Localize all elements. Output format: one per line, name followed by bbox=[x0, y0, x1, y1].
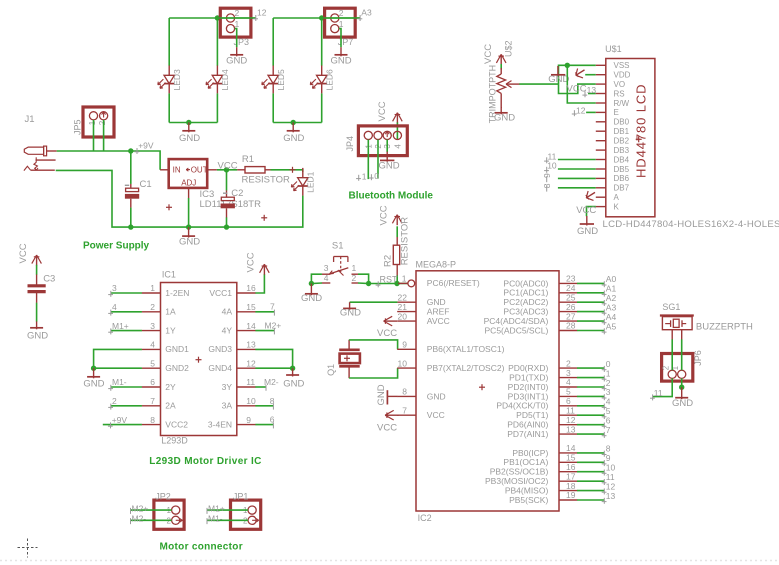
pin VO LCD stub bbox=[596, 83, 606, 85]
svg-text:VCC: VCC bbox=[377, 423, 397, 434]
svg-text:M1-: M1- bbox=[208, 514, 223, 524]
pin DB7 LCD stub bbox=[596, 187, 606, 189]
svg-text:LED5: LED5 bbox=[276, 69, 286, 91]
svg-text:11: 11 bbox=[566, 405, 575, 415]
svg-text:4: 4 bbox=[324, 273, 329, 283]
svg-text:S1: S1 bbox=[332, 241, 344, 252]
wire IC2 PD0(RXD) net 0 bbox=[577, 367, 604, 369]
svg-text:1: 1 bbox=[235, 19, 240, 29]
pin DB5 LCD stub bbox=[596, 168, 606, 170]
svg-text:M2-: M2- bbox=[132, 514, 147, 524]
LED LED5 bbox=[272, 66, 274, 76]
svg-text:PD7(AIN1): PD7(AIN1) bbox=[507, 429, 548, 439]
pin 18 PB4(MISO) IC2 bbox=[559, 490, 577, 492]
svg-text:Q1: Q1 bbox=[326, 364, 336, 376]
wire IC1 pin10 net 8 bbox=[255, 405, 273, 407]
buzzer pins down bbox=[671, 330, 673, 340]
svg-text:3: 3 bbox=[324, 263, 329, 273]
wire IC1 pin9 net 6 bbox=[255, 424, 273, 426]
wire C2 top bbox=[226, 170, 228, 191]
svg-text:C1: C1 bbox=[140, 179, 152, 190]
svg-text:1Y: 1Y bbox=[165, 325, 176, 335]
node junction rail GND1 bbox=[186, 120, 191, 125]
svg-text:DB2: DB2 bbox=[614, 137, 630, 146]
wire JP5 pin1 down bbox=[93, 120, 95, 151]
wire C1 bottom bbox=[130, 208, 132, 228]
svg-text:RESISTOR: RESISTOR bbox=[242, 174, 291, 185]
svg-text:VCC: VCC bbox=[483, 44, 494, 64]
pin 1 PC6/RESET bubble bbox=[408, 280, 415, 287]
wire JP4 pin1 net 1 bbox=[367, 140, 369, 180]
svg-text:28: 28 bbox=[566, 321, 576, 331]
svg-text:JP3: JP3 bbox=[234, 37, 250, 47]
pin A LCD stub bbox=[596, 196, 606, 198]
wire IC1 pin11 net M2- bbox=[255, 386, 266, 388]
pin 15 PB1(OC1A) IC2 bbox=[559, 461, 577, 463]
svg-text:2: 2 bbox=[150, 302, 155, 312]
pin 15 IC1 stub bbox=[237, 311, 256, 313]
svg-text:1: 1 bbox=[150, 283, 155, 293]
pin circle JP7-2 bbox=[331, 14, 339, 22]
pin 6 IC1 stub bbox=[142, 386, 161, 388]
power VCC arrow IC1 bbox=[263, 266, 265, 275]
svg-text:A3: A3 bbox=[361, 7, 372, 17]
svg-text:3-4EN: 3-4EN bbox=[208, 419, 232, 429]
ground GND IC1 left bbox=[93, 368, 95, 378]
svg-text:8: 8 bbox=[270, 396, 275, 406]
pin 6 PD4(XCK/T0) IC2 bbox=[559, 405, 577, 407]
wire IC1 pin15 net 7 bbox=[255, 311, 274, 313]
pin DB6 LCD stub bbox=[596, 177, 606, 179]
wire top rail LED5-JP7 bbox=[273, 17, 360, 19]
wire OUT to VCC node bbox=[217, 169, 237, 171]
node junction rail ADJ bbox=[186, 224, 191, 229]
node junction VSS bbox=[565, 63, 570, 68]
svg-text:JP2: JP2 bbox=[155, 491, 171, 501]
svg-text:C3: C3 bbox=[43, 274, 55, 285]
pin DB3 LCD stub bbox=[596, 149, 606, 151]
ground GND under C3 bbox=[36, 321, 38, 329]
svg-text:GND: GND bbox=[179, 133, 200, 144]
svg-text:2: 2 bbox=[566, 358, 571, 368]
svg-text:GND: GND bbox=[226, 56, 247, 67]
ic MEGA8-P IC2 body bbox=[416, 271, 559, 511]
svg-text:13: 13 bbox=[606, 491, 616, 501]
svg-text:7: 7 bbox=[606, 425, 611, 435]
connector JP6 bbox=[662, 354, 693, 382]
svg-text:M1-: M1- bbox=[112, 377, 127, 387]
svg-text:6: 6 bbox=[270, 415, 275, 425]
svg-text:VO: VO bbox=[614, 80, 626, 89]
svg-text:1-2EN: 1-2EN bbox=[165, 288, 189, 298]
connector JP2 bbox=[154, 500, 184, 529]
svg-text:RST: RST bbox=[380, 275, 399, 285]
wire top rail LED3-JP3 bbox=[169, 17, 256, 19]
wire LED5-LED6 bottom rail bbox=[273, 122, 322, 124]
capacitor C2 bbox=[226, 190, 228, 197]
svg-text:PD0(RXD): PD0(RXD) bbox=[508, 363, 548, 373]
pin 10 PB7(XTAL2/TOSC2) IC2 stub bbox=[397, 367, 416, 369]
svg-text:GND: GND bbox=[378, 161, 399, 172]
svg-text:JP5: JP5 bbox=[73, 119, 83, 135]
sheet origin crosshair bbox=[18, 547, 38, 549]
wire IC2 PB3(MOSI/OC2) net 11 bbox=[577, 480, 604, 482]
wire LED1 to bottom rail bbox=[227, 196, 303, 228]
svg-text:1: 1 bbox=[362, 172, 367, 182]
svg-text:U$2: U$2 bbox=[504, 40, 514, 57]
pin circle JP6-1 bbox=[678, 370, 686, 378]
pin circle JP2-2 bbox=[172, 516, 180, 524]
svg-text:10: 10 bbox=[398, 358, 408, 368]
part origin cross IC3 bbox=[166, 206, 172, 208]
svg-text:VCC: VCC bbox=[377, 328, 397, 339]
svg-text:M2+: M2+ bbox=[265, 320, 282, 330]
ground GND under JP4 bbox=[386, 152, 388, 162]
wire J1 switch to bottom rail bbox=[56, 170, 131, 227]
svg-text:7: 7 bbox=[270, 302, 275, 312]
wire VDD stub bbox=[585, 74, 596, 76]
svg-text:K: K bbox=[614, 202, 620, 211]
wire LCD K to GND bbox=[587, 207, 596, 217]
LED LED4 bbox=[216, 66, 218, 76]
svg-text:12: 12 bbox=[257, 7, 267, 17]
svg-text:LED6: LED6 bbox=[325, 69, 335, 91]
svg-text:JP4: JP4 bbox=[345, 136, 355, 152]
svg-text:GND: GND bbox=[376, 384, 387, 405]
pin 28 PC5(ADC5/SCL) IC2 bbox=[559, 330, 577, 332]
wire IC2 PC1(ADC1) net A1 bbox=[577, 292, 604, 294]
svg-text:GND: GND bbox=[83, 378, 104, 389]
pin K LCD stub bbox=[596, 206, 606, 208]
wire IC2 PD7(AIN1) net 7 bbox=[577, 433, 604, 435]
trimpot wiper arrow bbox=[506, 83, 520, 85]
wire IC1 pin14 net M2+ bbox=[255, 330, 274, 332]
node junction JP3 rail bbox=[215, 15, 220, 20]
svg-text:OUT: OUT bbox=[191, 165, 208, 174]
wire LED6 vertical bottom bbox=[321, 93, 323, 122]
pin 3 IC1 stub bbox=[142, 330, 161, 332]
pin 4 IC1 stub bbox=[142, 348, 161, 350]
svg-text:+9V: +9V bbox=[112, 415, 128, 425]
svg-text:8: 8 bbox=[402, 387, 407, 397]
svg-text:1: 1 bbox=[88, 120, 97, 125]
svg-text:4Y: 4Y bbox=[222, 325, 233, 335]
svg-text:4: 4 bbox=[393, 144, 402, 149]
svg-text:1: 1 bbox=[352, 263, 357, 273]
node junction JP6 GND bbox=[679, 385, 684, 390]
svg-text:19: 19 bbox=[566, 490, 576, 500]
svg-text:6: 6 bbox=[150, 377, 155, 387]
ground GND IC2 pin22 bbox=[349, 302, 351, 310]
part origin cross LCD bbox=[636, 138, 642, 140]
pin RS LCD stub bbox=[596, 93, 606, 95]
polarity minus C2 bbox=[223, 192, 227, 194]
svg-text:J1: J1 bbox=[25, 114, 35, 125]
svg-text:U$1: U$1 bbox=[605, 44, 622, 54]
svg-text:VCC: VCC bbox=[377, 101, 388, 121]
svg-text:7: 7 bbox=[402, 405, 407, 415]
resistor R1 bbox=[237, 169, 245, 171]
pin 3 PD1(TXD) IC2 bbox=[559, 377, 577, 379]
net label A3 bbox=[359, 15, 361, 21]
svg-text:L293D Motor Driver IC: L293D Motor Driver IC bbox=[149, 456, 261, 467]
pin 9 PB6(XTAL1/TOSC1) IC2 stub bbox=[397, 348, 416, 350]
svg-text:PB6(XTAL1/TOSC1): PB6(XTAL1/TOSC1) bbox=[427, 344, 505, 354]
svg-text:GND: GND bbox=[283, 378, 304, 389]
pin 13 PD7(AIN1) IC2 bbox=[559, 433, 577, 435]
wire IC2 PB1(OC1A) net 9 bbox=[577, 461, 604, 463]
svg-text:AVCC: AVCC bbox=[427, 316, 450, 326]
svg-text:GND3: GND3 bbox=[208, 344, 232, 354]
wire DB6 net 9 bbox=[558, 177, 596, 179]
svg-text:DB4: DB4 bbox=[614, 155, 630, 164]
svg-text:LED3: LED3 bbox=[172, 69, 182, 91]
wire VCC to C3 bbox=[36, 265, 38, 275]
pin E LCD stub bbox=[596, 111, 606, 113]
connector JP5 bbox=[83, 107, 114, 137]
svg-text:13: 13 bbox=[246, 340, 256, 350]
svg-text:3A: 3A bbox=[222, 401, 233, 411]
lcd U$1 HD44780 body bbox=[606, 59, 655, 217]
node junction S1 RST bbox=[366, 281, 371, 286]
ic L293D IC1 body bbox=[161, 283, 237, 436]
svg-text:10: 10 bbox=[606, 463, 616, 473]
svg-text:AREF: AREF bbox=[427, 307, 450, 317]
wire IC2 PC4(ADC4/SDA) net A4 bbox=[577, 320, 604, 322]
svg-text:7: 7 bbox=[150, 396, 155, 406]
wire IC2 PB5(SCK) net 13 bbox=[577, 499, 604, 501]
svg-text:DB5: DB5 bbox=[614, 165, 630, 174]
ground GND IC1 right bbox=[292, 368, 294, 376]
wire LED3-LED4 bottom rail bbox=[169, 122, 217, 124]
wire LED4 vertical bottom bbox=[216, 93, 218, 122]
connector J1 ring contact bbox=[36, 159, 56, 161]
svg-text:1: 1 bbox=[402, 273, 407, 283]
node junction JP7 rail bbox=[319, 15, 324, 20]
svg-text:26: 26 bbox=[566, 302, 576, 312]
wire JP1 pin2 net M1- bbox=[207, 519, 248, 521]
svg-text:Power Supply: Power Supply bbox=[83, 241, 150, 252]
wire DB7 net 8 bbox=[558, 187, 596, 189]
wire IC1 GND3 GND4 right bbox=[255, 349, 292, 368]
svg-text:0: 0 bbox=[606, 359, 611, 369]
power VCC arrow C3 bbox=[36, 257, 38, 266]
pin 17 PB3(MOSI/OC2) IC2 bbox=[559, 480, 577, 482]
LED LED6 bbox=[321, 66, 323, 76]
power VCC arrow AVCC bbox=[384, 320, 398, 322]
capacitor C3 bbox=[36, 275, 38, 285]
svg-text:LCD-HD447804-HOLES16X2-4-HOLES: LCD-HD447804-HOLES16X2-4-HOLES bbox=[603, 219, 779, 230]
svg-text:M2-: M2- bbox=[264, 377, 279, 387]
svg-text:3: 3 bbox=[112, 283, 117, 293]
svg-text:JP6: JP6 bbox=[693, 350, 703, 366]
svg-text:DB7: DB7 bbox=[614, 184, 630, 193]
svg-text:2A: 2A bbox=[165, 401, 176, 411]
node junction VCC out bbox=[224, 167, 229, 172]
svg-text:1A: 1A bbox=[165, 307, 176, 317]
wire VCC to trimpot bbox=[500, 64, 502, 70]
wire JP5 pin2 down bbox=[103, 120, 105, 151]
svg-text:L293D: L293D bbox=[161, 436, 188, 446]
pin VDD LCD stub bbox=[596, 74, 606, 76]
pin 8 IC1 stub bbox=[142, 424, 161, 426]
wire LED5 vertical top bbox=[272, 18, 274, 66]
svg-text:GND1: GND1 bbox=[165, 344, 189, 354]
wire IC1 pin2 net 4 bbox=[111, 311, 142, 313]
svg-text:11: 11 bbox=[246, 377, 255, 387]
wire IC1 pin7 net 2 bbox=[111, 405, 142, 407]
pin R/W LCD stub bbox=[596, 102, 606, 104]
crystal Q1 bbox=[348, 340, 350, 349]
wire Q1 pin1 to PB7 bbox=[349, 368, 398, 378]
svg-text:PD5(T1): PD5(T1) bbox=[516, 410, 548, 420]
node junction rail GND2 bbox=[291, 120, 296, 125]
ground GND IC2 pin8 rotated bbox=[387, 395, 397, 397]
wire JP2 pin1 net M2+ bbox=[131, 509, 172, 511]
wire JP2 pin2 net M2- bbox=[131, 519, 172, 521]
pin 13 IC1 stub bbox=[237, 348, 256, 350]
wire JP4 pin3 to GND bbox=[386, 140, 388, 153]
connector JP1 bbox=[231, 500, 261, 529]
svg-text:2Y: 2Y bbox=[165, 382, 176, 392]
pin 8 GND IC2 stub bbox=[397, 395, 416, 397]
connector JP7 bbox=[325, 8, 356, 37]
svg-text:PB7(XTAL2/TOSC2): PB7(XTAL2/TOSC2) bbox=[427, 363, 505, 373]
wire IC2 PC3(ADC3) net A3 bbox=[577, 311, 604, 313]
pin 14 IC1 stub bbox=[237, 330, 256, 332]
pin 19 PB5(SCK) IC2 bbox=[559, 499, 577, 501]
wire IC2 PC0(ADC0) net A0 bbox=[577, 282, 604, 284]
pin circle JP4-2 bbox=[374, 131, 382, 139]
pin 25 PC2(ADC2) IC2 bbox=[559, 301, 577, 303]
svg-text:VCC: VCC bbox=[379, 205, 390, 225]
power VCC arrow LCD A bbox=[586, 192, 595, 197]
capacitor C1 bbox=[130, 184, 132, 188]
ground GND JP6 bbox=[681, 387, 683, 399]
svg-text:4: 4 bbox=[112, 302, 117, 312]
svg-text:VCC2: VCC2 bbox=[165, 419, 188, 429]
wire IC2 PD3(INT1) net 3 bbox=[577, 395, 604, 397]
power VCC arrow LCD VDD bbox=[576, 70, 585, 75]
svg-text:MEGA8-P: MEGA8-P bbox=[416, 260, 457, 270]
svg-text:3Y: 3Y bbox=[222, 382, 233, 392]
svg-text:12: 12 bbox=[246, 358, 256, 368]
pin circle JP1-2 bbox=[248, 516, 256, 524]
svg-text:IC1: IC1 bbox=[162, 270, 176, 280]
wire Q1 pin2 to PB6 bbox=[349, 340, 398, 349]
wire IC2 PD5(T1) net 5 bbox=[577, 414, 604, 416]
net label 12 E bbox=[586, 111, 596, 113]
svg-text:8: 8 bbox=[150, 415, 155, 425]
svg-text:PC3(ADC3): PC3(ADC3) bbox=[503, 307, 548, 317]
svg-text:GND: GND bbox=[577, 226, 598, 237]
wire RW to GND net bbox=[567, 65, 596, 103]
pin 16 IC1 stub bbox=[237, 292, 256, 294]
svg-text:16: 16 bbox=[246, 283, 256, 293]
ground GND under JP3 bbox=[236, 47, 238, 56]
wire IC2 PD2(INT0) net 2 bbox=[577, 386, 604, 388]
svg-text:SG1: SG1 bbox=[662, 302, 680, 312]
wire LED5 vertical bottom bbox=[272, 93, 274, 122]
svg-text:4: 4 bbox=[150, 340, 155, 350]
wire DB4 net 11 bbox=[558, 159, 596, 161]
svg-text:PB2(SS/OC1B): PB2(SS/OC1B) bbox=[490, 467, 549, 477]
svg-text:13: 13 bbox=[587, 85, 597, 95]
wire IC2 PB2(SS/OC1B) net 10 bbox=[577, 471, 604, 473]
part origin cross IC2 bbox=[479, 386, 485, 388]
pin 11 IC1 stub bbox=[237, 386, 256, 388]
wire VCC to JP4 pin4 bbox=[396, 122, 398, 139]
pin 27 PC4(ADC4/SDA) IC2 bbox=[559, 320, 577, 322]
svg-text:ADJ: ADJ bbox=[181, 178, 196, 187]
svg-text:HD44780 LCD: HD44780 LCD bbox=[634, 84, 649, 178]
wire VCC to R2 bbox=[396, 226, 398, 237]
svg-text:RS: RS bbox=[614, 89, 625, 98]
svg-text:A5: A5 bbox=[606, 321, 617, 331]
power VCC arrow IC2 pin7 bbox=[385, 414, 399, 416]
power VCC arrow JP4 bbox=[396, 114, 398, 123]
svg-text:DB1: DB1 bbox=[614, 127, 630, 136]
pin 16 PB2(SS/OC1B) IC2 bbox=[559, 471, 577, 473]
svg-text:GND: GND bbox=[672, 398, 693, 409]
svg-text:5: 5 bbox=[150, 358, 155, 368]
wire LED6 vertical top bbox=[321, 18, 323, 66]
pin 1 IC1 stub bbox=[142, 292, 161, 294]
wire IC2 PD4(XCK/T0) net 4 bbox=[577, 405, 604, 407]
svg-text:15: 15 bbox=[246, 302, 256, 312]
svg-text:GND: GND bbox=[340, 308, 361, 319]
svg-text:PC6(/RESET): PC6(/RESET) bbox=[427, 278, 480, 288]
svg-text:20: 20 bbox=[398, 311, 408, 321]
net label RST bbox=[377, 281, 379, 287]
pin IC3 OUT stub bbox=[207, 169, 217, 171]
svg-text:RESISTOR: RESISTOR bbox=[399, 217, 410, 266]
pin circle JP1-1 bbox=[248, 506, 256, 514]
svg-text:VCC: VCC bbox=[567, 83, 587, 94]
svg-text:PC5(ADC5/SCL): PC5(ADC5/SCL) bbox=[485, 325, 549, 335]
pin 2 IC1 stub bbox=[142, 311, 161, 313]
svg-text:DB3: DB3 bbox=[614, 146, 630, 155]
part origin cross IC1 bbox=[196, 359, 202, 361]
power VCC arrow R2 bbox=[396, 216, 398, 225]
svg-text:Motor connector: Motor connector bbox=[160, 542, 243, 553]
wire VSS GND net bbox=[559, 65, 596, 84]
pin 26 PC3(ADC3) IC2 bbox=[559, 311, 577, 313]
svg-text:VDD: VDD bbox=[614, 71, 631, 80]
wire trimpot wiper to LCD bbox=[519, 83, 558, 85]
wire S1 right pins to RST bbox=[358, 274, 369, 283]
pin VSS LCD stub bbox=[596, 64, 606, 66]
svg-text:JP1: JP1 bbox=[233, 491, 249, 501]
svg-text:Bluetooth Module: Bluetooth Module bbox=[349, 191, 434, 202]
pin1 marker arrow JP4-3 bbox=[386, 132, 388, 138]
pin1 marker arrow JP2-2 bbox=[176, 519, 183, 521]
node junction +9V C1 bbox=[128, 148, 133, 153]
node junction IC1 right GND bbox=[290, 366, 295, 371]
svg-text:C2: C2 bbox=[231, 188, 243, 199]
wire IC1 pin3 net M1+ bbox=[111, 330, 142, 332]
node junction R2 RST bbox=[394, 281, 399, 286]
svg-text:13: 13 bbox=[566, 424, 576, 434]
pin circle JP7-1 bbox=[331, 25, 339, 33]
wire DB5 net 10 bbox=[558, 168, 596, 170]
wire IC2 pin22 GND bbox=[350, 301, 398, 303]
wire S1 left pins bbox=[311, 274, 322, 283]
buzzer SG1 body bbox=[660, 314, 694, 316]
svg-text:2: 2 bbox=[352, 273, 357, 283]
pin 12 IC1 stub bbox=[237, 367, 256, 369]
ground GND LCD VSS bbox=[557, 66, 559, 76]
